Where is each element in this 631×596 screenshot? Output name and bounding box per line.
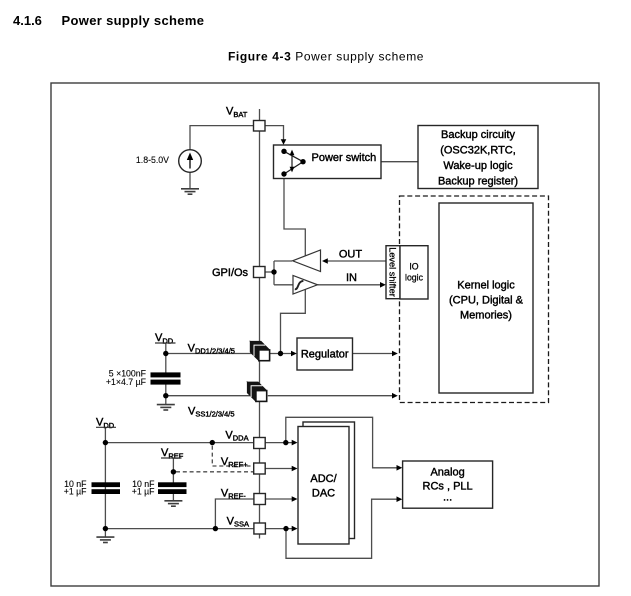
svg-text:logic: logic	[405, 273, 424, 283]
svg-text:Power supply scheme: Power supply scheme	[62, 13, 205, 28]
svg-text:+1 µF: +1 µF	[132, 487, 155, 497]
svg-text:+1 µF: +1 µF	[64, 487, 87, 497]
svg-text:(CPU, Digital &: (CPU, Digital &	[449, 295, 524, 307]
svg-text:Kernel logic: Kernel logic	[457, 280, 515, 292]
svg-text:4.1.6: 4.1.6	[13, 13, 42, 28]
svg-text:DAC: DAC	[312, 488, 335, 500]
svg-text:Memories): Memories)	[460, 310, 512, 322]
svg-text:Regulator: Regulator	[301, 349, 349, 361]
svg-text:IO: IO	[409, 262, 418, 272]
svg-text:IN: IN	[346, 272, 357, 284]
svg-text:OUT: OUT	[339, 249, 363, 261]
svg-text:...: ...	[443, 492, 452, 504]
svg-text:+1×4.7 µF: +1×4.7 µF	[106, 377, 146, 387]
svg-text:Figure 4-3 Power supply scheme: Figure 4-3 Power supply scheme	[228, 50, 424, 64]
svg-text:ADC/: ADC/	[310, 473, 337, 485]
svg-text:Wake-up logic: Wake-up logic	[443, 160, 513, 172]
svg-text:Backup register): Backup register)	[438, 176, 518, 188]
svg-text:(OSC32K,RTC,: (OSC32K,RTC,	[440, 145, 516, 157]
svg-text:Power switch: Power switch	[312, 152, 377, 164]
svg-text:1.8-5.0V: 1.8-5.0V	[136, 155, 169, 165]
svg-text:GPI/Os: GPI/Os	[212, 267, 249, 279]
svg-text:Level shifter: Level shifter	[388, 247, 398, 297]
svg-text:Analog: Analog	[430, 467, 464, 479]
svg-text:Backup circuity: Backup circuity	[441, 129, 515, 141]
